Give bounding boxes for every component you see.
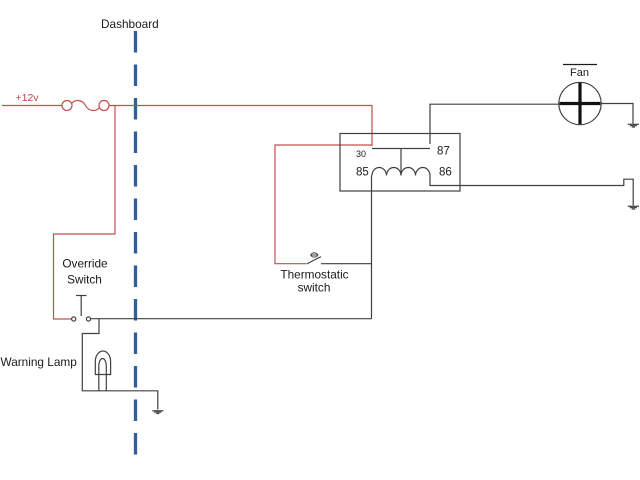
svg-text:switch: switch bbox=[298, 281, 331, 295]
wire red drop to override switch bbox=[54, 106, 116, 320]
svg-text:+12v: +12v bbox=[16, 92, 40, 104]
warning lamp LP1 bbox=[95, 351, 110, 391]
wire +12v rail left bbox=[2, 105, 62, 107]
relay armature tick bbox=[400, 149, 402, 176]
svg-text:30: 30 bbox=[356, 149, 366, 159]
relay coil bbox=[372, 168, 430, 176]
wire red feed to thermostatic switch bbox=[275, 145, 372, 264]
wire pin 87 to fan bbox=[430, 104, 559, 144]
ground fan bbox=[628, 124, 639, 127]
ground pin 86 bbox=[628, 206, 639, 209]
relay contact bar 30-87 bbox=[372, 148, 430, 150]
svg-text:Dashboard: Dashboard bbox=[101, 17, 159, 31]
fan motor M1 bbox=[559, 82, 601, 124]
ground lamp bbox=[152, 411, 163, 414]
svg-text:Fan: Fan bbox=[570, 67, 589, 79]
svg-text:Override: Override bbox=[62, 257, 108, 271]
wire branch to warning lamp bbox=[82, 319, 158, 410]
override switch S1 bbox=[72, 296, 91, 322]
wire override switch to relay pin 85 bbox=[91, 318, 372, 320]
svg-text:Warning Lamp: Warning Lamp bbox=[1, 355, 78, 369]
label Fan with overline bbox=[563, 64, 597, 66]
thermostatic switch S2 bbox=[307, 253, 322, 264]
wire thermostatic switch to pin 85 line bbox=[321, 263, 372, 265]
wire relay pin 85 down bbox=[371, 176, 373, 319]
wire fan to ground bbox=[601, 104, 633, 124]
fuse F1 bbox=[62, 100, 109, 110]
svg-text:85: 85 bbox=[356, 167, 369, 179]
svg-text:86: 86 bbox=[439, 167, 452, 179]
dashboard boundary dashed line bbox=[134, 31, 137, 461]
svg-text:87: 87 bbox=[437, 146, 450, 158]
svg-text:Thermostatic: Thermostatic bbox=[280, 268, 348, 282]
wire pin 86 to ground bbox=[430, 176, 633, 206]
wire red drop to pin 30 bbox=[371, 106, 373, 147]
svg-text:Switch: Switch bbox=[67, 273, 102, 287]
wire +12v rail to relay pin 30 bbox=[109, 105, 372, 107]
relay box bbox=[340, 134, 460, 192]
